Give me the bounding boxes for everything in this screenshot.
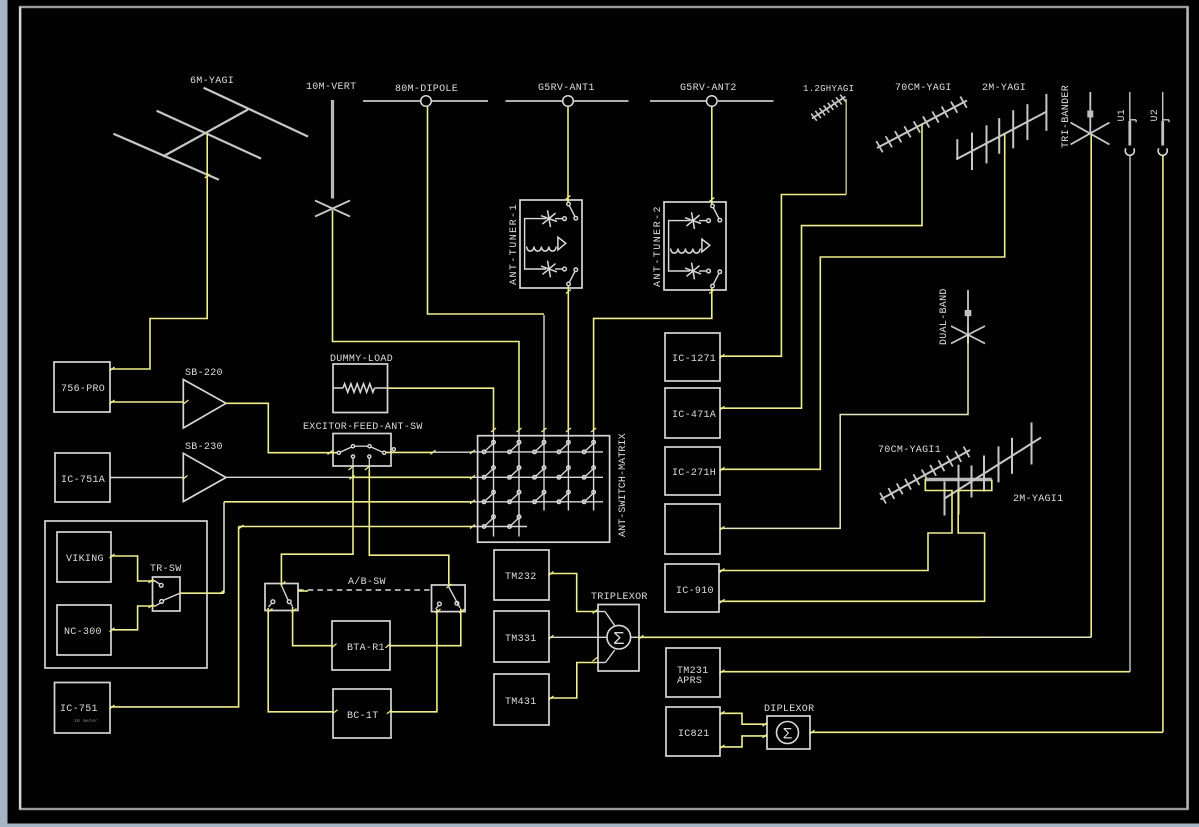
svg-text:TR-SW: TR-SW (150, 564, 182, 575)
svg-text:DUMMY-LOAD: DUMMY-LOAD (330, 354, 393, 365)
svg-text:TM232: TM232 (505, 572, 537, 583)
svg-text:IC-271H: IC-271H (672, 468, 716, 479)
svg-text:TRI-BANDER: TRI-BANDER (1061, 85, 1072, 148)
svg-text:IC821: IC821 (678, 729, 710, 740)
svg-text:2M-YAGI1: 2M-YAGI1 (1013, 494, 1063, 505)
svg-text:NC-300: NC-300 (64, 627, 102, 638)
svg-text:Σ: Σ (783, 725, 793, 743)
svg-text:G5RV-ANT2: G5RV-ANT2 (680, 83, 737, 94)
svg-text:APRS: APRS (677, 676, 702, 687)
svg-text:10 meter: 10 meter (74, 718, 98, 724)
svg-text:TM331: TM331 (505, 634, 537, 645)
svg-text:756-PRO: 756-PRO (61, 384, 105, 395)
svg-text:1.2GHYAGI: 1.2GHYAGI (803, 84, 854, 94)
svg-text:U2: U2 (1150, 109, 1161, 122)
svg-text:80M-DIPOLE: 80M-DIPOLE (395, 84, 458, 95)
svg-text:SB-230: SB-230 (185, 442, 223, 453)
svg-text:U1: U1 (1117, 109, 1128, 122)
svg-text:70CM-YAGI1: 70CM-YAGI1 (878, 445, 941, 456)
svg-text:70CM-YAGI: 70CM-YAGI (895, 83, 952, 94)
svg-text:6M-YAGI: 6M-YAGI (190, 76, 234, 87)
svg-text:VIKING: VIKING (66, 554, 104, 565)
svg-text:BTA-R1: BTA-R1 (347, 643, 385, 654)
svg-text:DUAL-BAND: DUAL-BAND (939, 288, 950, 345)
svg-text:Σ: Σ (613, 629, 624, 650)
svg-text:ANT-TUNER-1: ANT-TUNER-1 (509, 203, 520, 285)
svg-text:IC-751: IC-751 (60, 704, 98, 715)
svg-text:TM431: TM431 (505, 697, 537, 708)
svg-text:IC-751A: IC-751A (61, 475, 105, 486)
svg-text:IC-910: IC-910 (676, 586, 714, 597)
svg-text:DIPLEXOR: DIPLEXOR (764, 704, 814, 715)
svg-text:EXCITOR-FEED-ANT-SW: EXCITOR-FEED-ANT-SW (303, 422, 423, 433)
svg-text:G5RV-ANT1: G5RV-ANT1 (538, 83, 595, 94)
svg-text:IC-1271: IC-1271 (672, 354, 716, 365)
svg-text:ANT-SWITCH-MATRIX: ANT-SWITCH-MATRIX (618, 433, 629, 537)
svg-text:SB-220: SB-220 (185, 368, 223, 379)
svg-text:ANT-TUNER-2: ANT-TUNER-2 (653, 205, 664, 287)
svg-text:10M-VERT: 10M-VERT (306, 82, 356, 93)
svg-text:A/B-SW: A/B-SW (348, 576, 386, 588)
svg-text:BC-1T: BC-1T (347, 711, 379, 722)
svg-text:TRIPLEXOR: TRIPLEXOR (591, 592, 648, 603)
svg-text:2M-YAGI: 2M-YAGI (982, 83, 1026, 94)
svg-text:IC-471A: IC-471A (672, 410, 716, 421)
